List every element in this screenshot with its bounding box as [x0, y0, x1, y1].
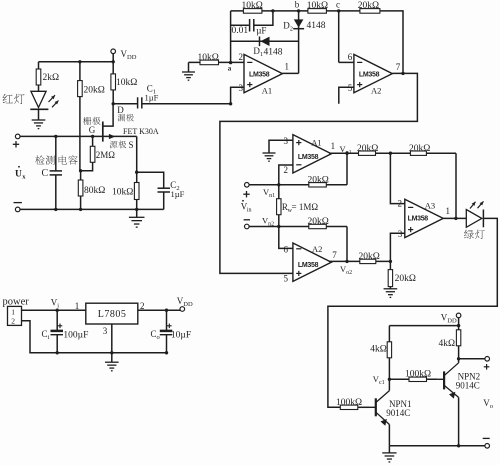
capacitor Co 10uF: [166, 310, 168, 330]
svg-text:FET K30A: FET K30A: [123, 127, 159, 136]
svg-text:5: 5: [348, 83, 353, 93]
op-amp A1 upper: [244, 54, 282, 92]
svg-text:100kΩ: 100kΩ: [336, 398, 362, 408]
capacitor C2 1uF: [158, 188, 171, 192]
capacitor C detection: [55, 136, 57, 170]
resistor 100k Vc1-NPN2: [389, 378, 437, 380]
svg-text:3: 3: [239, 83, 244, 93]
resistor 20k Vo2: [360, 259, 376, 263]
transistor NPN2 9014C: [443, 371, 445, 389]
svg-text:10kΩ: 10kΩ: [116, 78, 137, 88]
power terminal VDD (top-left): [111, 49, 116, 54]
svg-text:10kΩ: 10kΩ: [242, 1, 263, 11]
resistor 10k (drain): [112, 62, 114, 104]
svg-text:A1: A1: [311, 138, 321, 148]
svg-text:2: 2: [239, 52, 244, 62]
transistor NPN1 9014C: [375, 398, 377, 416]
resistor 80k: [80, 171, 82, 210]
svg-text:LM358: LM358: [359, 72, 380, 79]
terminal plus input: [15, 134, 20, 139]
resistor 10k (source): [136, 172, 138, 209]
ground under 20k: [384, 289, 398, 298]
svg-text:3: 3: [103, 326, 108, 336]
svg-text:10kΩ: 10kΩ: [112, 187, 133, 197]
svg-text:9014C: 9014C: [456, 381, 480, 391]
wire A2 pin6 from c: [338, 11, 340, 63]
svg-text:3: 3: [284, 136, 289, 146]
resistor 2M: [81, 136, 93, 170]
ground under 10k: [136, 209, 138, 217]
capacitor Ci 100uF: [56, 310, 58, 330]
resistor 100k NPN1 base: [340, 405, 358, 409]
svg-text:1: 1: [331, 141, 336, 151]
resistor 20k Vo1-A3: [359, 151, 376, 155]
node drain D: [112, 102, 115, 105]
svg-text:L7805: L7805: [98, 309, 127, 320]
ground output stage: [382, 453, 396, 462]
capacitor C1 1uF: [113, 103, 137, 105]
svg-text:20kΩ: 20kΩ: [308, 175, 329, 185]
svg-text:D: D: [117, 105, 124, 115]
op-amp A1 lower: [293, 135, 331, 173]
wire gate line: [20, 135, 103, 137]
svg-text:U: U: [15, 170, 22, 180]
wire A3 output: [443, 217, 466, 219]
resistor 20k A2 feedback: [339, 11, 403, 74]
svg-text:LM358: LM358: [298, 154, 319, 161]
capacitor 0.01uF: [231, 24, 249, 26]
terminal VDD output stage: [456, 313, 461, 318]
wire NPN2 emitter down: [458, 397, 460, 445]
wire lower A2 output Vo2: [329, 260, 390, 262]
resistor 2k: [38, 62, 40, 92]
wire NPN1 collector: [388, 379, 390, 390]
wire bottom rail left: [20, 208, 164, 210]
svg-text:6: 6: [284, 245, 289, 255]
op-amp A2 upper: [354, 54, 392, 92]
svg-text:10µF: 10µF: [171, 331, 191, 341]
node b: [297, 9, 300, 12]
terminal minus input: [15, 207, 20, 212]
label gate: [83, 117, 91, 125]
svg-text:= 1MΩ: = 1MΩ: [292, 202, 319, 212]
svg-text:1: 1: [75, 301, 80, 311]
node a: [229, 61, 232, 64]
svg-text:20kΩ: 20kΩ: [84, 85, 105, 95]
wire A3 feedback down: [455, 153, 457, 218]
terminal Vo minus: [485, 444, 490, 449]
wire Vn2 line: [245, 224, 250, 229]
svg-text:LM358: LM358: [249, 72, 270, 79]
svg-text:1: 1: [446, 206, 451, 216]
wire A2 output to lower section: [220, 73, 418, 273]
svg-text:A1: A1: [262, 85, 272, 95]
resistor 10k b-c: [299, 10, 339, 12]
svg-text:20kΩ: 20kΩ: [409, 144, 430, 154]
svg-text:LM358: LM358: [408, 215, 429, 222]
svg-text:C: C: [42, 168, 49, 179]
wire pin6 lower A2: [279, 227, 293, 249]
wire Vi: [22, 309, 86, 311]
FET K30A: [102, 122, 104, 142]
ground at A1 input: [188, 62, 190, 72]
svg-text:10kΩ: 10kΩ: [198, 53, 219, 63]
LED red lamp: [31, 91, 46, 107]
op-amp A3: [405, 199, 443, 237]
op-amp A2 lower: [293, 243, 331, 281]
svg-text:S: S: [129, 140, 134, 150]
svg-text:µF: µF: [256, 25, 266, 35]
svg-text:A2: A2: [312, 244, 322, 254]
terminal Vo plus: [485, 357, 490, 362]
svg-text:1: 1: [285, 62, 290, 72]
svg-text:c: c: [336, 0, 340, 10]
svg-text:6: 6: [348, 52, 353, 62]
svg-text:4148: 4148: [264, 47, 283, 57]
svg-text:A2: A2: [371, 85, 381, 95]
wire source to C2: [136, 136, 138, 172]
svg-text:4148: 4148: [307, 21, 326, 31]
wire NPN1 emitter down: [388, 425, 390, 446]
label source: [110, 141, 118, 149]
wire LED to output stage: [328, 218, 497, 407]
svg-text:7: 7: [332, 250, 337, 260]
svg-text:2: 2: [284, 165, 289, 175]
svg-text:4kΩ: 4kΩ: [439, 339, 456, 349]
LED green lamp: [466, 210, 482, 228]
svg-text:80kΩ: 80kΩ: [84, 186, 105, 196]
svg-text:2MΩ: 2MΩ: [96, 150, 116, 160]
resistor 20k A3 feedback: [410, 151, 426, 155]
node c: [337, 9, 340, 12]
svg-text:20kΩ: 20kΩ: [358, 1, 379, 11]
wire A3 pin2: [390, 153, 404, 203]
svg-text:10kΩ: 10kΩ: [307, 1, 328, 11]
wire rail to A2 pin5: [339, 87, 354, 104]
label detection capacitor: [35, 155, 45, 164]
svg-text:4kΩ: 4kΩ: [370, 344, 387, 354]
wire A1 output: [282, 72, 298, 74]
svg-text:5: 5: [284, 274, 289, 284]
resistor 20k: [79, 62, 81, 171]
svg-text:in: in: [247, 208, 252, 214]
svg-text:20kΩ: 20kΩ: [359, 252, 380, 262]
resistor 4k right: [458, 326, 460, 359]
node Vc1: [388, 378, 391, 381]
svg-text:1µF: 1µF: [171, 189, 185, 199]
svg-text:20kΩ: 20kΩ: [395, 274, 416, 284]
svg-text:20kΩ: 20kΩ: [357, 144, 378, 154]
wire A1 pin3 down to rail: [231, 87, 244, 104]
svg-text:100kΩ: 100kΩ: [405, 369, 431, 379]
node 2M top: [91, 135, 94, 138]
svg-text:2: 2: [11, 317, 15, 326]
svg-text:a: a: [228, 65, 232, 73]
wire output bottom rail: [389, 445, 485, 447]
svg-text:20kΩ: 20kΩ: [308, 217, 329, 227]
ground at lower A1 pin3: [269, 140, 293, 153]
diode D1 4148: [231, 40, 299, 42]
node cap C top: [54, 135, 57, 138]
wire NPN2 collector node: [458, 359, 460, 363]
wire top rail: [39, 61, 114, 63]
svg-text:b: b: [295, 0, 300, 10]
resistor Rw 1M: [278, 185, 280, 227]
wire A3 pin3: [390, 233, 404, 261]
svg-text:9014C: 9014C: [386, 408, 410, 418]
resistor 10k input: [189, 61, 245, 63]
svg-text:2kΩ: 2kΩ: [43, 73, 60, 83]
svg-text:G: G: [89, 125, 96, 135]
diode D2 4148: [298, 11, 300, 74]
resistor 10k feedback: [231, 10, 299, 12]
wire power ground rail: [22, 321, 167, 353]
wire pin2 to Vn1: [279, 165, 293, 185]
resistor 4k left: [388, 326, 390, 380]
wire VDD rail output stage: [389, 325, 458, 327]
connector J1: [8, 306, 22, 325]
svg-text:LM358: LM358: [298, 262, 319, 269]
wire Vn1 line with 20k feedback: [245, 183, 250, 188]
wire node a up: [230, 11, 232, 63]
svg-text:1µF: 1µF: [145, 92, 159, 102]
wire lower A1 output Vo1: [329, 152, 456, 154]
terminal VDD power: [180, 307, 185, 312]
svg-text:7: 7: [396, 62, 401, 72]
node divider: [79, 169, 82, 172]
ground under red LED: [32, 120, 46, 129]
label red lamp: [3, 94, 13, 103]
ground power: [111, 353, 113, 362]
svg-text:100µF: 100µF: [63, 331, 88, 341]
svg-text:1: 1: [11, 308, 15, 317]
wire C1 to A-section rail: [142, 103, 230, 105]
label green lamp: [464, 230, 474, 239]
resistor 20k to ground: [389, 261, 391, 288]
svg-text:A3: A3: [425, 201, 435, 211]
regulator L7805: [86, 303, 138, 324]
svg-text:0.01: 0.01: [232, 26, 249, 36]
